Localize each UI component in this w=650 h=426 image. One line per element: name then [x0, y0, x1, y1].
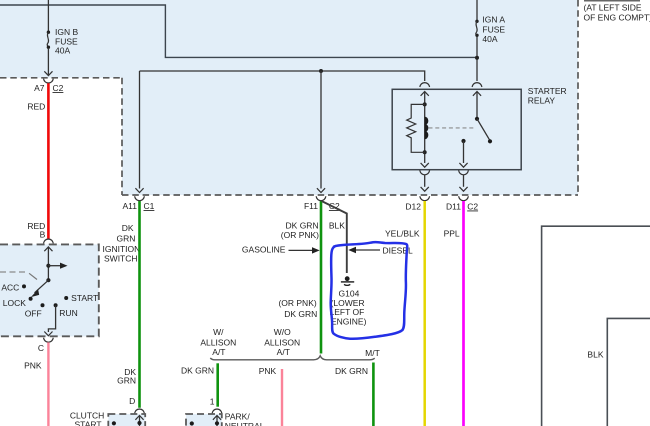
node junction: [46, 264, 50, 268]
relay bottom arrows inside box: [421, 163, 429, 167]
dashed fuse block boundary left: [0, 77, 122, 79]
wire DK GRN from A11 to D: [138, 201, 141, 408]
fuse IGN A 40A: [475, 20, 478, 23]
dashed fuse block boundary right: [577, 0, 579, 195]
svg-text:LOCK: LOCK: [3, 298, 26, 308]
svg-text:ALLISON: ALLISON: [200, 337, 236, 347]
svg-text:ENGINE): ENGINE): [331, 317, 367, 327]
park/neutral position switch dashed box: [186, 414, 222, 426]
connector cup at 1: [212, 409, 222, 413]
node coil bottom: [423, 150, 427, 154]
wire PNK middle branch: [281, 369, 283, 426]
svg-text:C2: C2: [53, 83, 64, 93]
park/neutral switch box fill: [186, 414, 222, 426]
arrow at F11: [317, 188, 325, 192]
park/neutral arrow up: [213, 416, 221, 420]
svg-text:GRN: GRN: [117, 233, 136, 243]
svg-text:1: 1: [210, 397, 215, 407]
clutch switch arrow up: [135, 416, 143, 420]
wire: bus to relay coil: [140, 71, 425, 81]
relay mech dashed link: [429, 127, 475, 129]
arrow at A11: [135, 188, 143, 192]
svg-text:W/: W/: [213, 327, 224, 337]
connector cup at B: [44, 239, 54, 243]
svg-text:(AT LEFT SIDE: (AT LEFT SIDE: [584, 2, 642, 12]
clutch start switch box fill: [108, 414, 145, 426]
wire: battery bus top-left step: [0, 5, 477, 57]
underhood fuse block region (blue): [0, 0, 578, 195]
svg-text:BLK: BLK: [587, 349, 603, 359]
relay switch blade: [477, 119, 490, 141]
starter relay box: [392, 89, 521, 169]
svg-text:(OR PNK): (OR PNK): [281, 230, 319, 240]
svg-text:DK: DK: [122, 223, 134, 233]
connector D11 C2: [459, 196, 469, 200]
switch pivot: [46, 278, 50, 282]
arrow at A7: [44, 71, 52, 75]
svg-text:W/O: W/O: [274, 327, 291, 337]
wire below IGN A fuse: [476, 36, 478, 81]
park/neutral contacts: [190, 421, 194, 425]
svg-text:A/T: A/T: [277, 347, 290, 357]
svg-text:GRN: GRN: [117, 376, 136, 386]
svg-text:DK GRN: DK GRN: [335, 366, 368, 376]
node: junction bus1/IGN A: [475, 56, 479, 60]
svg-text:GASOLINE: GASOLINE: [242, 245, 286, 255]
label (AT LEFT SIDE OF ENG COMPT): [584, 0, 640, 2]
svg-text:ACC: ACC: [1, 283, 19, 293]
wire below IGN B fuse: [47, 48, 49, 75]
wire DK GRN right branch: [372, 363, 375, 426]
relay exit D11: cup, wire, arrow: [459, 170, 469, 174]
svg-text:B: B: [40, 230, 46, 240]
svg-text:RED: RED: [27, 101, 45, 111]
wire A11 drop: [139, 71, 141, 189]
wire: IGN B feed: [47, 0, 49, 31]
wire F11 drop: [320, 71, 322, 189]
svg-text:C2: C2: [467, 202, 478, 212]
svg-text:YEL/BLK: YEL/BLK: [385, 229, 420, 239]
connector cup at C: [44, 338, 54, 342]
contact OFF: [41, 303, 45, 307]
contact ACC: [22, 284, 26, 288]
svg-text:40A: 40A: [482, 34, 497, 44]
annotation: blue pen circle around G104: [331, 242, 408, 339]
svg-text:C: C: [38, 343, 44, 353]
arrow right (feed to other deck): [48, 265, 61, 267]
svg-text:A7: A7: [34, 83, 45, 93]
relay output wire: [463, 141, 465, 163]
wire: IGN A feed: [476, 0, 478, 20]
contact LOCK: [29, 297, 33, 301]
svg-text:PPL: PPL: [444, 228, 460, 238]
svg-text:DK GRN: DK GRN: [284, 309, 317, 319]
svg-text:PNK: PNK: [259, 366, 277, 376]
connector A11 C1: [135, 196, 145, 200]
svg-text:M/T: M/T: [365, 348, 380, 358]
svg-text:D: D: [129, 396, 135, 406]
wire BLK to ground: [322, 201, 347, 273]
wire RUN to C: [48, 305, 55, 332]
wire YEL from D12: [423, 201, 426, 426]
wire BLK outer (to starter): [542, 226, 650, 426]
wire DK GRN left branch: [216, 363, 219, 406]
dashed fuse block boundary vertical: [121, 78, 123, 195]
svg-text:F11: F11: [304, 201, 318, 211]
relay output contact: [461, 139, 465, 143]
connector cup at D: [135, 409, 145, 413]
node coil top: [423, 102, 427, 106]
svg-text:ALLISON: ALLISON: [264, 337, 300, 347]
clutch start switch dashed box: [108, 414, 145, 426]
arrow down at C: [44, 332, 52, 336]
contact RUN: [54, 303, 58, 307]
svg-text:A11: A11: [123, 201, 138, 211]
ignition switch box fill: [0, 244, 99, 336]
wire BLK inner: [607, 318, 650, 426]
svg-text:RELAY: RELAY: [528, 95, 556, 105]
contact START: [64, 296, 68, 300]
relay coil winding: [425, 117, 428, 138]
connector D12: [420, 196, 430, 200]
connector F11 C2: [316, 196, 326, 200]
relay coil wire: [424, 92, 426, 164]
node: junction bus2/F11: [319, 69, 323, 73]
wire DK GRN from F11: [320, 201, 323, 354]
svg-text:A/T: A/T: [212, 347, 225, 357]
svg-text:PNK: PNK: [24, 361, 42, 371]
svg-text:SWITCH: SWITCH: [104, 253, 138, 263]
svg-text:DIESEL: DIESEL: [383, 245, 414, 255]
relay switch pivot: [475, 117, 479, 121]
wire RED (A7 to B): [47, 83, 50, 239]
svg-text:NEUTRAL: NEUTRAL: [225, 421, 265, 426]
relay coil input arrow: [421, 92, 429, 96]
svg-text:IGN B: IGN B: [55, 27, 78, 37]
wire PNK from C: [47, 342, 49, 426]
svg-text:D11: D11: [446, 202, 461, 212]
svg-text:OFF: OFF: [25, 309, 42, 319]
ignition switch dashed box: [0, 244, 99, 336]
svg-text:OF ENG COMPT): OF ENG COMPT): [584, 13, 650, 23]
dashed fuse block boundary bottom: [122, 194, 578, 196]
svg-text:(OR PNK): (OR PNK): [278, 298, 316, 308]
ignition switch internal arrow up at B: [44, 247, 52, 251]
svg-text:D12: D12: [405, 202, 421, 212]
svg-text:START: START: [71, 293, 98, 303]
fuse IGN B 40A: [47, 31, 50, 34]
svg-text:START: START: [75, 420, 102, 426]
mech link dashes: [0, 271, 26, 273]
ground G104: [345, 276, 350, 281]
svg-text:STARTER: STARTER: [528, 86, 567, 96]
relay switch input arrow: [473, 92, 481, 96]
clutch switch contacts: [112, 421, 116, 425]
wire PPL from D11: [462, 201, 465, 426]
svg-text:40A: 40A: [55, 46, 70, 56]
relay terminal cups top: [420, 83, 430, 87]
resistor (parallel with coil): [407, 104, 425, 152]
switch blade toward LOCK: [35, 280, 49, 293]
svg-text:IGN A: IGN A: [482, 15, 505, 25]
svg-text:FUSE: FUSE: [482, 24, 505, 34]
relay exit D12: cup, wire, arrow: [420, 170, 430, 174]
svg-text:BLK: BLK: [329, 221, 345, 231]
svg-text:PARK/: PARK/: [225, 411, 251, 421]
svg-text:RUN: RUN: [59, 308, 77, 318]
svg-text:C1: C1: [144, 201, 155, 211]
option split bracket: [210, 356, 374, 360]
svg-text:DK GRN: DK GRN: [181, 366, 214, 376]
connector A7 C2: [44, 79, 54, 83]
relay switch wire: [476, 92, 478, 119]
wire switch feed: [47, 247, 49, 280]
